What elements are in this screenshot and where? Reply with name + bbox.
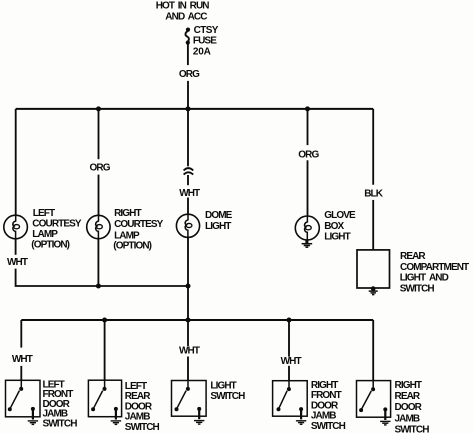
wire: ORG label to top bus [187, 81, 189, 109]
wire: glove branch, bus to ORG label [307, 109, 309, 145]
junction: dome column / return line [186, 284, 191, 289]
label: LEFT COURTESY LAMP (OPTION) [31, 208, 82, 250]
junction: top bus / glove box branch [305, 106, 310, 111]
svg-text:(OPTION): (OPTION) [113, 240, 151, 251]
svg-text:SWITCH: SWITCH [125, 422, 160, 433]
svg-text:LIGHT: LIGHT [324, 232, 350, 243]
svg-text:WHT: WHT [12, 354, 33, 365]
wire: lower bus to WHT label (right front) [288, 320, 290, 357]
label: GLOVE BOX LIGHT [324, 210, 356, 243]
svg-text:LAMP: LAMP [32, 229, 58, 240]
svg-text:DOME: DOME [205, 210, 233, 221]
ground: rear compartment ground [369, 286, 378, 294]
junction: top bus / left courtesy lamp branch [96, 106, 101, 111]
svg-text:COMPARTMENT: COMPARTMENT [400, 262, 469, 273]
wire: WHT label down and across to dome column [16, 269, 188, 286]
svg-text:ORG: ORG [298, 149, 319, 160]
svg-text:HOT IN RUN: HOT IN RUN [156, 1, 210, 12]
wire: dome column to lower bus [187, 286, 189, 320]
svg-text:JAMB: JAMB [311, 411, 336, 422]
wire: ORG label to right courtesy lamp [98, 175, 100, 216]
svg-text:LIGHT: LIGHT [210, 380, 236, 391]
ground: light switch ground [194, 421, 204, 425]
svg-text:WHT: WHT [7, 257, 28, 268]
label: DOME LIGHT [205, 210, 233, 232]
wire: BLK label to rear compartment box [372, 200, 374, 250]
lamp: left courtesy lamp [4, 215, 28, 239]
wire: lower bus to left rear switch [104, 320, 106, 380]
svg-text:RIGHT: RIGHT [114, 208, 141, 219]
wire: WHT label to left front switch [20, 366, 22, 380]
svg-text:REAR: REAR [400, 251, 426, 262]
wire: dome lamp bottom down [187, 237, 189, 286]
switch: left rear door jamb switch [88, 380, 121, 419]
label: LIGHT SWITCH [210, 380, 245, 401]
label: REAR COMPARTMENT LIGHT AND SWITCH [400, 251, 469, 295]
wire: left lamp bottom to WHT label [15, 239, 17, 255]
svg-text:(OPTION): (OPTION) [31, 239, 69, 250]
wire: fuse output down [187, 44, 189, 65]
connector: in-line connector (double chevron) [184, 168, 194, 175]
svg-text:DOOR: DOOR [395, 402, 423, 413]
switch: light switch [172, 381, 207, 420]
svg-text:COURTESY: COURTESY [114, 219, 164, 230]
wire: lower bus to WHT label (left front) [20, 320, 22, 348]
svg-text:SWITCH: SWITCH [400, 284, 435, 295]
wire: WHT label to right front switch [288, 366, 290, 381]
svg-text:WHT: WHT [281, 356, 302, 367]
lamp: right courtesy lamp [87, 215, 110, 238]
junction: lower bus / right front branch [287, 318, 292, 323]
svg-text:REAR: REAR [395, 391, 421, 402]
wire: dome branch, bus to connector [187, 109, 189, 166]
svg-text:SWITCH: SWITCH [395, 425, 430, 434]
svg-text:BLK: BLK [364, 188, 384, 199]
svg-text:AND ACC: AND ACC [165, 12, 207, 23]
node: HOT IN RUN AND ACC feed label [156, 1, 210, 23]
wire: WHT label to dome light [187, 198, 189, 215]
svg-text:GLOVE: GLOVE [324, 210, 356, 221]
label: RIGHT REAR DOOR JAMB SWITCH [395, 380, 430, 434]
junction: top bus / dome light branch [186, 106, 191, 111]
wire: lower bus to right rear switch [372, 320, 374, 381]
svg-text:SWITCH: SWITCH [210, 391, 245, 402]
wire: ORG label to glove box light [307, 160, 309, 216]
switch: right rear door jamb switch [357, 381, 391, 420]
svg-text:ORG: ORG [179, 69, 200, 80]
svg-text:LIGHT: LIGHT [205, 221, 231, 232]
svg-text:WHT: WHT [179, 188, 200, 199]
wire: right branch, bus to BLK label [372, 109, 374, 185]
label: LEFT FRONT DOOR JAMB SWITCH [43, 379, 78, 429]
wire: connector to WHT label [187, 175, 189, 185]
label: RIGHT COURTESY LAMP (OPTION) [113, 208, 163, 251]
svg-text:WHT: WHT [179, 346, 200, 357]
wire: lower bus to WHT label (light switch) [187, 320, 189, 346]
lamp: glove box light [295, 216, 319, 240]
junction: lower bus / dome column [186, 318, 191, 323]
switch: left front door jamb switch [6, 380, 41, 419]
svg-text:RIGHT: RIGHT [395, 380, 422, 391]
svg-text:LEFT: LEFT [33, 208, 55, 219]
svg-text:SWITCH: SWITCH [311, 421, 346, 432]
svg-text:JAMB: JAMB [395, 413, 420, 424]
svg-text:BOX: BOX [324, 221, 344, 232]
label: RIGHT FRONT DOOR JAMB SWITCH [311, 380, 346, 432]
svg-text:FUSE: FUSE [193, 36, 217, 47]
wire: top distribution bus [16, 108, 374, 110]
wire: WHT label to light switch [187, 357, 189, 381]
junction: right lamp / return line [96, 284, 101, 289]
ground: right rear switch ground [380, 421, 390, 425]
wire: second branch, bus to ORG label [98, 109, 100, 159]
svg-text:20A: 20A [193, 47, 211, 58]
svg-text:SWITCH: SWITCH [43, 418, 78, 429]
svg-text:ORG: ORG [90, 162, 111, 173]
wire: lower distribution bus [21, 319, 373, 321]
label: LEFT REAR DOOR JAMB SWITCH [125, 381, 160, 433]
wire: right courtesy lamp bottom down [97, 239, 99, 286]
ground: left rear switch ground [111, 421, 121, 425]
junction: lower bus / left rear branch [102, 318, 107, 323]
box: rear compartment light and switch [357, 250, 390, 288]
wire: left branch down to left courtesy lamp [15, 109, 17, 215]
svg-text:LIGHT AND: LIGHT AND [400, 273, 449, 284]
ground: right front switch ground [296, 421, 306, 425]
ground: left front switch ground [28, 421, 38, 425]
lamp: dome light [176, 214, 199, 237]
switch: right front door jamb switch [273, 381, 308, 420]
fuse CTSY FUSE 20A [185, 25, 218, 57]
ground: glove box light ground [302, 240, 313, 247]
